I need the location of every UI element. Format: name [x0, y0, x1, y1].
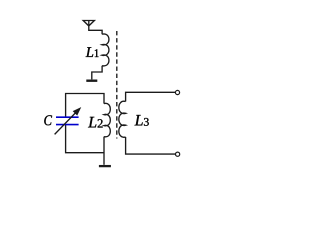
label L3: [135, 115, 143, 125]
dashed core line: [116, 31, 118, 139]
ground: [99, 165, 111, 167]
inductor L2: [104, 103, 110, 136]
terminal bottom: [176, 152, 180, 156]
inductor L3: [119, 101, 126, 137]
wire L3 top to terminal: [126, 92, 176, 101]
inductor L1: [102, 34, 109, 66]
wire L1 to ground: [92, 66, 102, 80]
label L1: [86, 47, 94, 57]
label C: [44, 115, 52, 125]
antenna: [83, 21, 94, 26]
wire L2 to ground: [103, 137, 105, 165]
ground: [86, 79, 97, 81]
terminal top: [175, 90, 179, 94]
capacitor C arrow: [55, 108, 81, 135]
wire tank top: [66, 94, 104, 118]
wire L3 bottom to terminal: [126, 137, 176, 154]
wire tank bottom: [66, 125, 104, 153]
wire antenna to L1: [89, 26, 102, 34]
label L2: [88, 117, 96, 128]
capacitor C plates: [56, 117, 79, 124]
